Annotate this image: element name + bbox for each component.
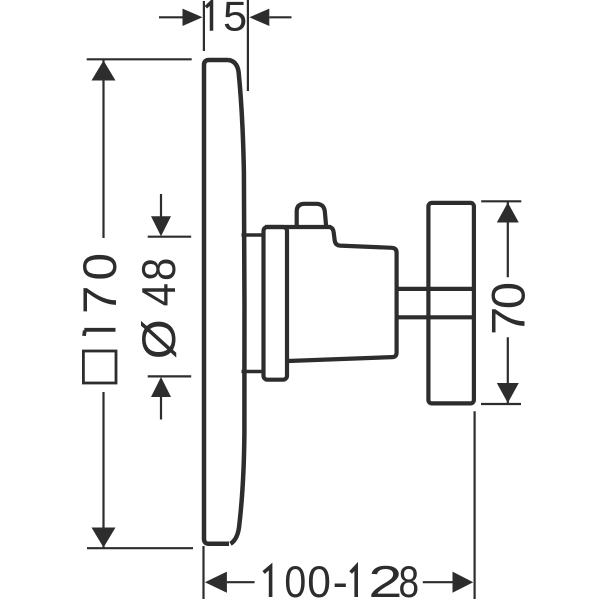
svg-text:0: 0 [284,557,306,600]
dimension 70: upper line segment [507,201,509,277]
dimension 70: top arrow [497,203,519,223]
handle stem upper line [397,287,474,291]
dimension diameter48: lower line segment [160,397,162,420]
dimension diameter48: top tick [148,236,192,238]
dimension square170: lower line segment [102,392,104,548]
dimension 15: left extension line [203,1,205,51]
svg-text:7: 7 [75,286,127,314]
svg-text:7: 7 [483,307,535,335]
dimension 70: label [483,282,535,335]
dimension square170: bottom arrow [92,528,116,548]
svg-text:5: 5 [223,0,247,41]
dimension square170: label 170 [74,253,126,336]
dimension 70: bottom tick [481,403,521,405]
dimension 100-128: right extension line [474,411,476,599]
valve cartridge body [288,227,397,361]
dimension diameter48: label [133,258,185,360]
dimension 100-128: left tail line [227,581,255,583]
sleeve-plate connector bottom [242,370,266,374]
dimension 100-128: right tail line [423,581,453,583]
dimension square170: square symbol [83,351,116,383]
dimension diameter48: upper line segment [160,194,162,218]
dimension 15: right arrow [249,9,269,26]
svg-text:-: - [333,557,348,600]
dimension 100-128: label [264,557,419,600]
dimension 15: label [206,0,247,41]
dimension 15: right tail line [269,16,291,18]
dimension 15: left tail line [159,16,183,18]
dimension 15: left arrow [183,9,203,26]
dimension diameter48: top arrow pointing down [151,216,171,236]
dimension diameter48: bottom tick [148,375,192,377]
cross handle (side view) [428,203,474,404]
dimension 70: bottom arrow [497,383,519,403]
svg-text:0: 0 [307,558,331,600]
valve body top edge [265,225,331,229]
escutcheon sleeve [264,227,288,380]
dimension 100-128: left arrow [205,572,227,593]
svg-text:8: 8 [399,557,420,600]
dimension square170: bottom tick [87,547,193,549]
dimension 100-128: left extension line [202,546,204,599]
dimension 15: right extension line [247,0,249,91]
sleeve-plate connector top [242,233,266,237]
svg-text:4: 4 [134,283,186,306]
dimension square170: top tick [87,58,192,60]
dimension 70: lower line segment [507,337,509,404]
svg-text:8: 8 [134,258,186,281]
dimension square170: top arrow [92,61,116,81]
handle stem lower line [397,315,474,319]
svg-text:0: 0 [483,282,535,309]
dimension square170: upper line segment [102,60,104,238]
svg-text:2: 2 [368,557,402,600]
dimension 100-128: right arrow [453,572,474,593]
dimension 70: top tick [481,200,521,202]
dimension diameter48: bottom arrow pointing up [151,377,171,397]
safety-stop button on valve body [297,204,327,229]
wall plate (escutcheon, side view) [204,60,244,544]
svg-text:Ø: Ø [133,319,185,359]
svg-text:0: 0 [74,253,126,281]
